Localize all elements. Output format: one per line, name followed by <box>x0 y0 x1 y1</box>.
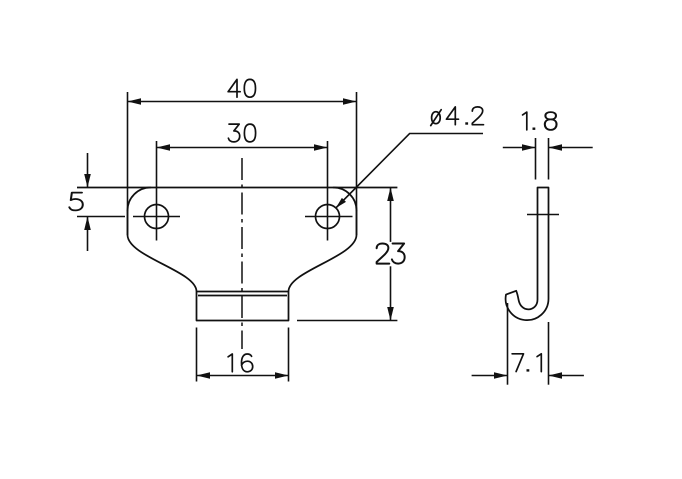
leader o4.2: leader line with arrow <box>334 134 483 211</box>
dimension 40: dimension line <box>128 98 357 105</box>
dimension 40: text <box>228 79 255 97</box>
dimension 7.1: dimension line segments with arrows <box>472 372 584 379</box>
dimension 7.1: extension lines <box>508 303 549 385</box>
dimension 1.8: text <box>523 112 557 130</box>
dimension 7.1: text <box>512 354 541 372</box>
dimension 5: dimension line segments with arrows <box>84 153 91 251</box>
dimension 16: dimension line <box>197 372 289 379</box>
dimension 16: extension lines <box>197 328 289 382</box>
front view: bracket plate outline <box>128 188 357 321</box>
dimension 23: dimension line segments with arrows <box>387 188 394 321</box>
vertical centerline (dash-dot) <box>241 158 243 349</box>
dimension 1.8: dimension line segments with arrows <box>503 144 593 151</box>
dimension 23: bottom extension line <box>297 320 397 322</box>
side view: hole position tick line <box>527 214 559 216</box>
leader o4.2: text <box>431 107 484 126</box>
dimension 5: lower extension line <box>77 216 125 218</box>
dimension 1.8: extension lines <box>536 138 549 180</box>
dimension 40: extension lines <box>128 92 357 235</box>
dimension 30: text <box>228 124 255 142</box>
front view: neck bottom edge <box>197 320 289 322</box>
dimension 5: text <box>69 193 82 211</box>
front view: neck top bend lines <box>197 292 289 296</box>
hole left (o4.2) <box>145 205 169 229</box>
top edge + extension line y=187.5 <box>77 187 397 189</box>
side view: hook profile outline <box>506 188 549 321</box>
dimension 16: text <box>228 354 253 372</box>
hole left crosshair <box>133 141 180 241</box>
hole right crosshair <box>305 141 353 241</box>
dimension 23: text <box>377 243 405 263</box>
hole right (o4.2) <box>316 205 340 229</box>
dimension 30: dimension line <box>157 144 328 151</box>
